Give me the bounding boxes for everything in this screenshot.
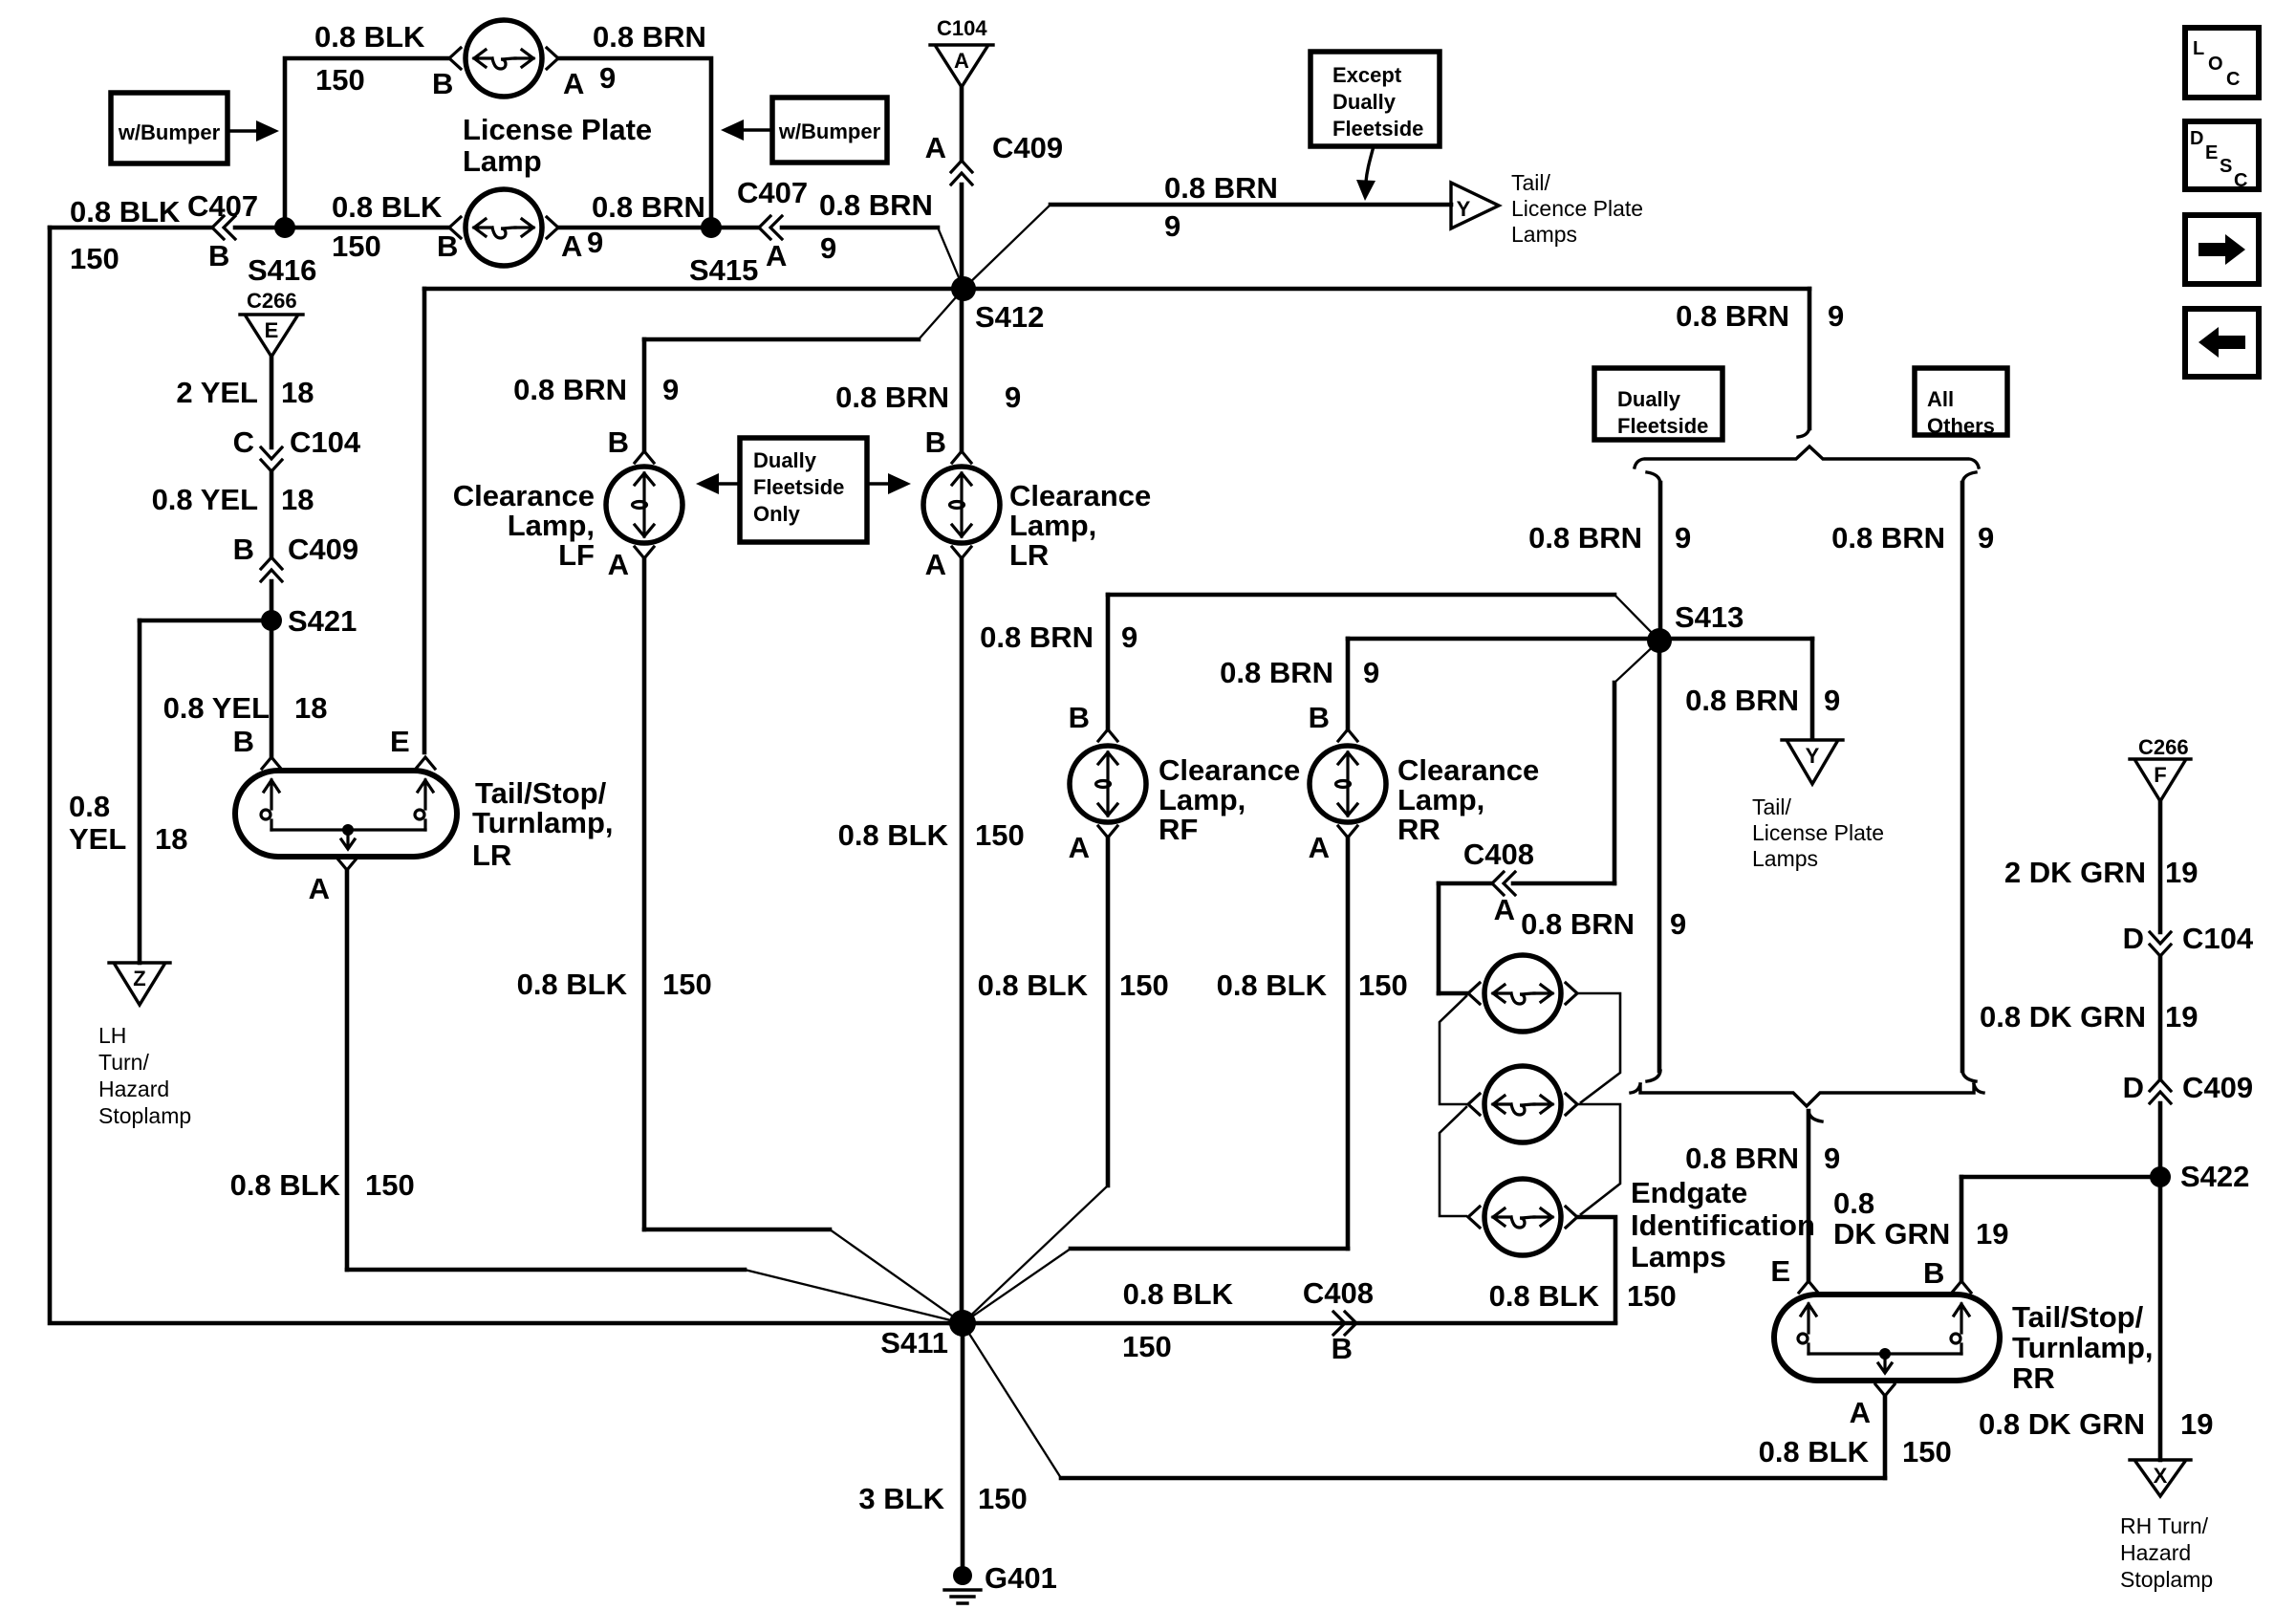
svg-text:0.8 DK GRN: 0.8 DK GRN: [1980, 1000, 2146, 1033]
svg-text:Tail/: Tail/: [1752, 794, 1792, 819]
svg-text:E: E: [1770, 1254, 1790, 1288]
svg-text:150: 150: [1902, 1435, 1952, 1469]
svg-text:0.8 YEL: 0.8 YEL: [163, 691, 270, 725]
svg-text:9: 9: [1978, 521, 1994, 555]
svg-text:B: B: [437, 229, 458, 263]
svg-text:Dually: Dually: [753, 448, 817, 472]
svg-text:9: 9: [1670, 907, 1686, 941]
svg-text:Tail/Stop/: Tail/Stop/: [2012, 1300, 2144, 1334]
svg-text:9: 9: [587, 226, 603, 259]
svg-text:C407: C407: [737, 176, 808, 209]
svg-text:18: 18: [281, 483, 314, 516]
svg-text:Turn/: Turn/: [98, 1050, 149, 1075]
svg-text:C: C: [233, 425, 254, 459]
svg-text:A: A: [1069, 831, 1090, 864]
svg-text:A: A: [1494, 893, 1515, 926]
svg-text:S413: S413: [1675, 600, 1744, 634]
svg-text:Clearance: Clearance: [453, 479, 595, 512]
svg-text:0.8 BRN: 0.8 BRN: [513, 373, 627, 406]
svg-text:B: B: [432, 67, 453, 100]
svg-text:E: E: [2205, 142, 2218, 163]
svg-text:Fleetside: Fleetside: [753, 475, 844, 499]
svg-text:Tail/: Tail/: [1511, 170, 1551, 195]
svg-text:C409: C409: [2182, 1071, 2253, 1104]
svg-text:C409: C409: [992, 131, 1063, 164]
svg-text:Lamp,: Lamp,: [1397, 783, 1484, 816]
svg-text:C407: C407: [187, 189, 258, 223]
svg-text:C408: C408: [1303, 1276, 1374, 1310]
svg-text:150: 150: [1122, 1330, 1172, 1363]
svg-text:C409: C409: [288, 533, 358, 566]
svg-text:S411: S411: [880, 1326, 948, 1360]
svg-text:19: 19: [1976, 1217, 2008, 1251]
svg-text:A: A: [563, 67, 584, 100]
svg-text:Clearance: Clearance: [1159, 753, 1300, 787]
svg-text:A: A: [1850, 1396, 1871, 1429]
svg-text:Fleetside: Fleetside: [1617, 414, 1708, 438]
svg-text:C408: C408: [1463, 838, 1534, 871]
svg-text:D: D: [2190, 128, 2203, 149]
svg-text:B: B: [233, 725, 254, 758]
svg-text:3 BLK: 3 BLK: [858, 1482, 944, 1515]
svg-text:A: A: [925, 548, 946, 581]
svg-text:RF: RF: [1159, 813, 1198, 846]
svg-text:150: 150: [1358, 968, 1408, 1002]
svg-text:Lamps: Lamps: [1752, 846, 1818, 871]
svg-text:LR: LR: [472, 838, 511, 872]
svg-text:RR: RR: [2012, 1361, 2055, 1395]
svg-text:Others: Others: [1927, 414, 1995, 438]
svg-text:RR: RR: [1397, 813, 1440, 846]
svg-text:9: 9: [820, 231, 836, 265]
svg-text:0.8 BLK: 0.8 BLK: [70, 195, 181, 228]
svg-text:18: 18: [281, 376, 314, 409]
svg-text:B: B: [1069, 701, 1090, 734]
svg-text:19: 19: [2165, 1000, 2198, 1033]
svg-text:0.8 BLK: 0.8 BLK: [838, 818, 949, 852]
svg-text:9: 9: [662, 373, 679, 406]
svg-text:Turnlamp,: Turnlamp,: [2012, 1331, 2154, 1364]
svg-text:0.8 DK GRN: 0.8 DK GRN: [1979, 1407, 2145, 1441]
svg-text:License Plate: License Plate: [1752, 820, 1884, 845]
svg-text:0.8 BLK: 0.8 BLK: [1123, 1277, 1234, 1311]
svg-text:A: A: [608, 548, 629, 581]
svg-text:Lamp,: Lamp,: [1159, 783, 1245, 816]
svg-text:150: 150: [365, 1168, 415, 1202]
svg-text:B: B: [208, 239, 229, 272]
svg-text:0.8 BRN: 0.8 BRN: [592, 190, 705, 224]
svg-text:Except: Except: [1332, 63, 1402, 87]
svg-text:Lamp,: Lamp,: [1009, 509, 1096, 542]
svg-text:A: A: [1309, 831, 1330, 864]
svg-text:A: A: [925, 131, 946, 164]
svg-text:License Plate: License Plate: [463, 113, 652, 146]
svg-text:0.8 BLK: 0.8 BLK: [1217, 968, 1328, 1002]
svg-text:B: B: [1309, 701, 1330, 734]
svg-text:Lamps: Lamps: [1511, 222, 1577, 247]
svg-text:0.8 BLK: 0.8 BLK: [332, 190, 443, 224]
svg-text:Tail/Stop/: Tail/Stop/: [475, 776, 607, 810]
svg-text:C104: C104: [937, 16, 987, 40]
svg-text:S416: S416: [248, 253, 316, 287]
svg-text:150: 150: [332, 229, 381, 263]
svg-text:0.8 BRN: 0.8 BRN: [1521, 907, 1635, 941]
svg-text:L: L: [2193, 38, 2204, 59]
svg-text:E: E: [265, 318, 279, 342]
svg-text:0.8 BRN: 0.8 BRN: [1220, 656, 1333, 689]
svg-text:A: A: [309, 872, 330, 905]
svg-text:9: 9: [1675, 521, 1691, 555]
svg-text:0.8: 0.8: [69, 790, 110, 823]
svg-text:S415: S415: [689, 253, 758, 287]
svg-text:Stoplamp: Stoplamp: [98, 1103, 191, 1128]
svg-text:Lamps: Lamps: [1631, 1240, 1726, 1273]
svg-text:0.8 BLK: 0.8 BLK: [230, 1168, 341, 1202]
svg-text:Hazard: Hazard: [98, 1077, 169, 1101]
svg-text:B: B: [1923, 1256, 1944, 1290]
svg-text:C266: C266: [2138, 735, 2189, 759]
svg-text:LH: LH: [98, 1023, 126, 1048]
svg-text:150: 150: [975, 818, 1025, 852]
svg-text:0.8 BRN: 0.8 BRN: [835, 381, 949, 414]
svg-text:2 DK GRN: 2 DK GRN: [2004, 856, 2146, 889]
svg-text:150: 150: [1627, 1279, 1677, 1313]
svg-text:B: B: [233, 533, 254, 566]
svg-text:S421: S421: [288, 604, 357, 638]
svg-text:S422: S422: [2180, 1160, 2249, 1193]
svg-text:0.8: 0.8: [1833, 1186, 1874, 1220]
svg-text:0.8 BLK: 0.8 BLK: [517, 968, 628, 1001]
svg-text:Only: Only: [753, 502, 801, 526]
svg-text:Hazard: Hazard: [2120, 1540, 2191, 1565]
svg-text:9: 9: [1121, 620, 1137, 654]
svg-text:B: B: [608, 425, 629, 459]
svg-text:0.8 BRN: 0.8 BRN: [1164, 171, 1278, 205]
svg-text:150: 150: [70, 242, 119, 275]
svg-text:E: E: [390, 725, 410, 758]
svg-text:0.8 BRN: 0.8 BRN: [1685, 1142, 1799, 1175]
svg-text:9: 9: [1824, 1142, 1840, 1175]
svg-text:Clearance: Clearance: [1397, 753, 1539, 787]
svg-text:150: 150: [315, 63, 365, 97]
svg-text:S: S: [2220, 156, 2232, 177]
svg-text:0.8 BRN: 0.8 BRN: [1676, 299, 1789, 333]
svg-text:0.8 BLK: 0.8 BLK: [314, 20, 425, 54]
svg-text:0.8 BRN: 0.8 BRN: [819, 188, 933, 222]
svg-text:150: 150: [1119, 968, 1169, 1002]
svg-text:S412: S412: [975, 300, 1044, 334]
svg-text:RH Turn/: RH Turn/: [2120, 1513, 2209, 1538]
svg-text:B: B: [925, 425, 946, 459]
svg-text:Lamp: Lamp: [463, 144, 542, 178]
svg-text:0.8 BRN: 0.8 BRN: [1528, 521, 1642, 555]
svg-text:Z: Z: [133, 967, 145, 990]
svg-text:0.8 BRN: 0.8 BRN: [593, 20, 706, 54]
svg-text:DK GRN: DK GRN: [1833, 1217, 1950, 1251]
svg-text:Turnlamp,: Turnlamp,: [472, 806, 614, 839]
svg-text:9: 9: [599, 61, 616, 95]
svg-text:X: X: [2154, 1464, 2168, 1488]
svg-text:9: 9: [1824, 684, 1840, 717]
svg-text:Identification: Identification: [1631, 1208, 1815, 1242]
svg-text:Lamp,: Lamp,: [508, 509, 595, 542]
svg-text:A: A: [766, 239, 787, 272]
svg-text:YEL: YEL: [69, 822, 126, 856]
svg-text:0.8 BLK: 0.8 BLK: [1759, 1435, 1870, 1469]
svg-text:w/Bumper: w/Bumper: [778, 120, 881, 143]
svg-text:Dually: Dually: [1332, 90, 1397, 114]
svg-text:Y: Y: [1457, 197, 1471, 221]
svg-text:D: D: [2123, 922, 2144, 955]
svg-text:C266: C266: [247, 289, 297, 313]
svg-text:Stoplamp: Stoplamp: [2120, 1567, 2213, 1592]
svg-text:2 YEL: 2 YEL: [176, 376, 258, 409]
svg-text:9: 9: [1363, 656, 1379, 689]
svg-text:18: 18: [155, 822, 187, 856]
svg-text:9: 9: [1005, 381, 1021, 414]
svg-text:Clearance: Clearance: [1009, 479, 1151, 512]
svg-text:0.8 BRN: 0.8 BRN: [980, 620, 1094, 654]
svg-text:150: 150: [662, 968, 712, 1001]
svg-text:Licence Plate: Licence Plate: [1511, 196, 1643, 221]
svg-text:All: All: [1927, 387, 1954, 411]
svg-text:0.8 BRN: 0.8 BRN: [1831, 521, 1945, 555]
svg-text:18: 18: [294, 691, 327, 725]
svg-text:G401: G401: [985, 1561, 1057, 1595]
svg-text:0.8 YEL: 0.8 YEL: [152, 483, 258, 516]
svg-text:0.8 BLK: 0.8 BLK: [978, 968, 1089, 1002]
svg-text:A: A: [954, 49, 969, 73]
svg-text:9: 9: [1828, 299, 1844, 333]
svg-text:w/Bumper: w/Bumper: [118, 120, 221, 144]
svg-text:19: 19: [2165, 856, 2198, 889]
svg-text:C: C: [2226, 69, 2240, 90]
svg-text:0.8 BRN: 0.8 BRN: [1685, 684, 1799, 717]
svg-text:Dually: Dually: [1617, 387, 1681, 411]
svg-text:9: 9: [1164, 209, 1180, 243]
svg-text:C: C: [2234, 170, 2247, 191]
svg-text:Y: Y: [1806, 744, 1820, 768]
svg-text:C104: C104: [2182, 922, 2254, 955]
svg-text:C104: C104: [290, 425, 361, 459]
svg-text:O: O: [2208, 54, 2223, 75]
svg-text:B: B: [1332, 1332, 1353, 1365]
svg-text:D: D: [2123, 1071, 2144, 1104]
svg-text:LR: LR: [1009, 538, 1049, 572]
svg-text:0.8 BLK: 0.8 BLK: [1489, 1279, 1600, 1313]
svg-text:Fleetside: Fleetside: [1332, 117, 1423, 141]
svg-text:A: A: [561, 229, 582, 263]
svg-text:Endgate: Endgate: [1631, 1176, 1747, 1209]
svg-text:150: 150: [978, 1482, 1028, 1515]
svg-text:19: 19: [2180, 1407, 2213, 1441]
svg-text:LF: LF: [558, 538, 595, 572]
svg-text:F: F: [2154, 763, 2166, 787]
